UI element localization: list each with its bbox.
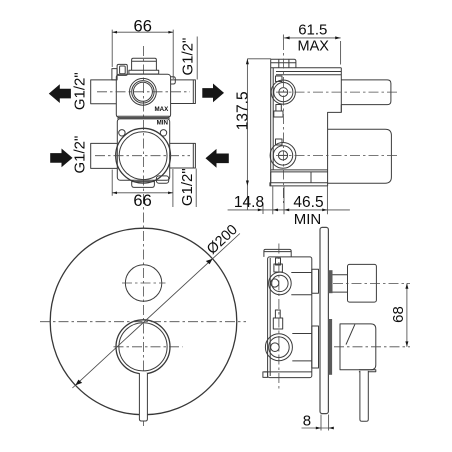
svg-text:14.8: 14.8 (234, 194, 264, 211)
svg-text:137.5: 137.5 (235, 91, 252, 130)
svg-text:MAX: MAX (155, 106, 170, 113)
svg-text:8: 8 (303, 412, 311, 429)
svg-text:46.5: 46.5 (293, 194, 323, 211)
svg-text:MIN: MIN (157, 119, 169, 126)
svg-text:G1/2": G1/2" (72, 136, 89, 174)
svg-text:G1/2": G1/2" (179, 168, 196, 206)
svg-text:68: 68 (390, 306, 407, 323)
svg-text:61.5: 61.5 (298, 22, 327, 39)
svg-text:G1/2": G1/2" (72, 72, 89, 110)
svg-text:G1/2": G1/2" (179, 38, 196, 76)
svg-text:MAX: MAX (297, 38, 329, 54)
svg-text:66: 66 (134, 17, 152, 35)
svg-text:MIN: MIN (294, 211, 322, 228)
svg-text:66: 66 (133, 192, 151, 210)
